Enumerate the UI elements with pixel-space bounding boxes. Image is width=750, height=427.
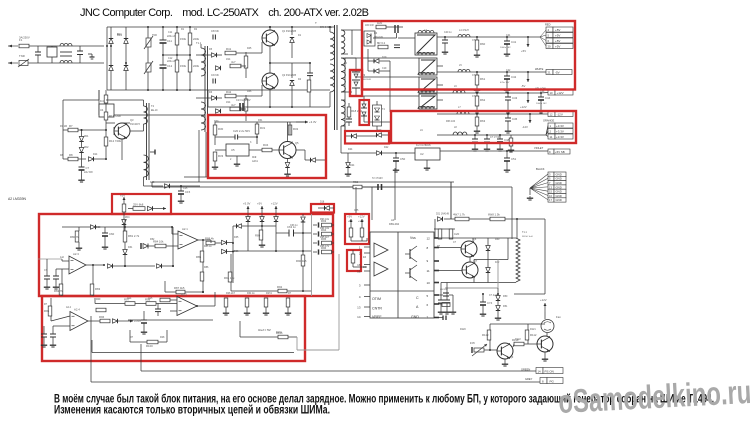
wire gray input (38, 258, 62, 260)
svg-text:+12V: +12V (557, 91, 564, 95)
svg-text:C7: C7 (86, 166, 90, 170)
ground (508, 148, 514, 152)
svg-text:RED: RED (545, 23, 551, 27)
wire (347, 168, 349, 172)
capacitor CX1 (35, 52, 41, 55)
wire (189, 27, 191, 33)
svg-text:C11: C11 (168, 31, 173, 34)
wire (309, 63, 311, 73)
wire (236, 156, 238, 162)
resistor F1 fuse (19, 38, 29, 48)
svg-text:GND: GND (411, 315, 419, 319)
wire (124, 242, 126, 249)
wire (165, 291, 176, 293)
winding T1.1 upper winding (201, 48, 206, 76)
wire (340, 126, 342, 153)
ground (50, 343, 56, 347)
svg-text:+3.3V: +3.3V (309, 120, 317, 124)
ground (102, 245, 108, 249)
svg-text:C42: C42 (506, 69, 511, 72)
wire (313, 224, 317, 226)
junction (275, 250, 277, 252)
wire (540, 37, 546, 46)
wire +3.3V rail (437, 134, 546, 136)
ground (178, 199, 184, 203)
svg-text:C?: C? (453, 241, 457, 244)
wire (104, 236, 106, 245)
wire (304, 150, 306, 160)
svg-text:C43: C43 (512, 96, 518, 100)
highlight box D12 (360, 100, 370, 125)
resistor R97 (124, 298, 135, 306)
wire (50, 316, 52, 321)
choke core (60, 55, 72, 57)
wire (355, 58, 357, 72)
wire (78, 242, 80, 246)
wire (332, 233, 335, 235)
wire (303, 232, 312, 234)
svg-text:R120: R120 (460, 328, 466, 331)
capacitor C75 (443, 316, 446, 321)
svg-text:1N4: 1N4 (226, 58, 231, 61)
wire (376, 126, 378, 130)
svg-text:L6: L6 (454, 85, 457, 88)
wire (240, 108, 246, 110)
svg-text:D14: D14 (93, 153, 98, 156)
diode D6 (212, 96, 217, 101)
svg-text:+12V: +12V (520, 105, 527, 109)
wire (50, 298, 52, 306)
svg-text:1R0 1W: 1R0 1W (365, 24, 374, 27)
wire (62, 260, 69, 262)
capacitor C65 (318, 231, 320, 236)
wire pin stub left (364, 284, 370, 286)
wire (215, 242, 221, 244)
wire (147, 72, 149, 90)
diode D32 (108, 264, 113, 269)
wire (357, 135, 376, 137)
svg-text:C42: C42 (511, 75, 517, 79)
wire (86, 264, 104, 266)
svg-text:OTIM: OTIM (372, 297, 381, 301)
junction (476, 92, 478, 94)
diode D31 (123, 250, 128, 255)
wire (270, 62, 292, 64)
diode D7 (216, 66, 221, 71)
choke winding L3 winding -5V (419, 58, 437, 75)
junction (189, 89, 191, 91)
wire Q7 emitter (473, 278, 475, 283)
wire (78, 227, 80, 231)
inductor L common-mode choke b (60, 60, 72, 63)
svg-text:C20: C20 (454, 232, 460, 236)
resistor R102 (96, 308, 106, 312)
svg-text:10: 10 (427, 281, 431, 285)
svg-text:R31: R31 (260, 126, 266, 130)
wire (363, 116, 365, 122)
svg-text:12: 12 (550, 112, 554, 116)
wire (507, 121, 509, 129)
svg-text:3: 3 (359, 284, 361, 288)
svg-text:PS ON: PS ON (545, 369, 554, 373)
wire (363, 96, 365, 104)
capacitor C61 (44, 276, 50, 279)
wire (382, 186, 396, 188)
wire (540, 30, 546, 37)
wire (55, 279, 57, 285)
svg-text:R90 1k5: R90 1k5 (296, 259, 307, 263)
wire (256, 134, 258, 144)
wire (90, 361, 92, 382)
svg-text:D31: D31 (128, 246, 133, 249)
wire (309, 75, 311, 80)
diode ZD1 (79, 137, 84, 142)
wire (487, 260, 489, 268)
svg-text:R30: R30 (218, 127, 224, 131)
svg-text:D24: D24 (348, 148, 353, 151)
diode D40 (113, 319, 118, 324)
ground (472, 147, 478, 151)
junction (172, 265, 174, 267)
wire pin stub left (364, 296, 370, 298)
wire (238, 136, 257, 138)
junction (302, 290, 304, 292)
resistor R95 (44, 306, 52, 316)
resistor R100 (146, 340, 158, 348)
wire (147, 27, 149, 38)
diode D35 (222, 240, 227, 245)
wire primary mid bus (107, 89, 330, 91)
resistor R115 (438, 229, 442, 239)
wire tap2 (341, 53, 348, 55)
wire (476, 50, 478, 53)
wire (344, 126, 346, 136)
wire (94, 298, 96, 304)
resistor R91 (224, 272, 235, 282)
capacitor C44 (538, 96, 551, 100)
wire (245, 95, 247, 99)
transistor Q7 (462, 262, 478, 278)
transistor Q6 (461, 241, 477, 257)
winding T primary winding lower (330, 64, 335, 92)
wire (215, 136, 235, 138)
wire (294, 232, 304, 234)
diode D14 (89, 157, 94, 162)
wire (497, 288, 499, 294)
wire (289, 122, 291, 125)
wire (524, 343, 528, 345)
junction (92, 264, 94, 266)
wire (62, 325, 70, 327)
wire (302, 223, 304, 234)
resistor R96 (321, 246, 332, 254)
svg-text:A2.3: A2.3 (73, 252, 79, 256)
op-amp A2.2 (177, 293, 197, 316)
wire (157, 304, 159, 310)
arrow feed +5.0V (243, 202, 251, 214)
svg-text:IC3: IC3 (252, 155, 257, 159)
arrow -5V load (521, 75, 530, 88)
wire (313, 251, 317, 253)
svg-text:D30: D30 (96, 226, 101, 229)
ground (444, 310, 450, 314)
resistor R1 (175, 33, 186, 45)
wire (440, 303, 442, 310)
svg-text:C51: C51 (511, 157, 517, 161)
wire (130, 130, 144, 132)
ground (393, 168, 399, 172)
svg-text:Q7: Q7 (474, 260, 478, 263)
svg-text:+12V: +12V (358, 215, 365, 219)
resistor R51 (377, 41, 388, 49)
wire (506, 161, 508, 168)
svg-text:25V 6k8: 25V 6k8 (133, 203, 144, 207)
junction (105, 158, 107, 160)
junction (476, 113, 478, 115)
wire (151, 182, 153, 187)
svg-text:R83: R83 (95, 287, 101, 291)
junction (180, 185, 182, 187)
arrow +12V load (520, 96, 530, 109)
wire tap5 (341, 99, 345, 101)
ground chassis (88, 54, 95, 59)
junction (147, 26, 149, 28)
highlight box -12V/+3.3V rails (391, 111, 576, 143)
svg-text:Q1 KSC2335: Q1 KSC2335 (282, 30, 297, 33)
wire (205, 132, 207, 177)
wire (157, 312, 159, 316)
T core line a (334, 25, 336, 130)
inductor L3 bumps e (418, 106, 434, 109)
thermistor NTC1 (144, 36, 153, 49)
svg-text:U5: U5 (231, 148, 235, 152)
wire (162, 43, 164, 65)
svg-text:R28: R28 (160, 336, 165, 339)
wire (482, 305, 484, 312)
wire (540, 37, 546, 41)
junction (172, 265, 174, 267)
wire (95, 303, 125, 305)
wire (162, 265, 173, 267)
capacitor C11 (160, 39, 173, 43)
connector table RED +5V (546, 27, 573, 49)
ground (504, 168, 510, 172)
resistor R47 (307, 80, 311, 92)
wire bottom rail (474, 282, 516, 284)
wire (78, 158, 86, 160)
wire bridge right leg (125, 27, 127, 90)
wire (148, 245, 155, 247)
diode ZD4 (122, 220, 127, 225)
capacitor C65 (41, 334, 47, 337)
wire aux rail in box (92, 352, 294, 354)
wire (504, 359, 506, 362)
ground (474, 129, 480, 133)
resistor R93 (321, 219, 332, 227)
svg-text:ZD4: ZD4 (125, 216, 130, 219)
svg-text:ORANGE: ORANGE (543, 119, 555, 123)
junction (269, 106, 271, 108)
wire (540, 100, 542, 109)
dual diode D9 (352, 72, 360, 88)
resistor R72 (351, 254, 355, 263)
wire (214, 135, 216, 145)
svg-text:ZD2: ZD2 (84, 146, 89, 149)
wire (345, 135, 351, 137)
svg-text:5R:50 1uH: 5R:50 1uH (522, 236, 533, 238)
wire (309, 92, 311, 107)
wire stub (437, 65, 443, 67)
wire (316, 159, 325, 161)
junction (232, 251, 234, 253)
wire (52, 326, 54, 334)
svg-text:C25: C25 (354, 209, 359, 212)
ground (259, 243, 265, 247)
junction (176, 89, 178, 91)
wire (239, 321, 241, 337)
svg-text:C40 1n: C40 1n (444, 31, 452, 34)
fan M1 (541, 315, 561, 333)
resistor R52 (353, 180, 362, 189)
svg-text:R62: R62 (480, 98, 486, 102)
resistor R92 (277, 285, 287, 293)
wire (497, 301, 499, 305)
svg-text:R88 4k: R88 4k (205, 237, 214, 241)
wire (352, 29, 362, 31)
svg-text:R52: R52 (353, 180, 359, 184)
wire (527, 324, 529, 330)
choke core (60, 51, 72, 53)
svg-text:D40: D40 (495, 238, 500, 241)
arrow feed +5V (257, 202, 264, 214)
wire Q2 emitter (269, 89, 271, 107)
svg-text:R8: R8 (69, 153, 73, 157)
capacitor C43 (505, 96, 518, 100)
svg-text:4x7: 4x7 (231, 60, 236, 64)
pin stub (434, 282, 439, 284)
resistor R64 (509, 138, 513, 146)
wire T1.1 to bus (198, 130, 200, 182)
svg-text:R95: R95 (44, 309, 50, 313)
capacitor CX2 box (47, 47, 57, 57)
capacitor C41 (504, 40, 517, 44)
svg-text:Q3: Q3 (130, 118, 134, 122)
svg-text:22u 50V: 22u 50V (84, 171, 93, 174)
transistor Q8 (537, 336, 553, 352)
svg-text:+OUT: +OUT (134, 319, 142, 323)
wire (176, 72, 178, 90)
junction (176, 26, 178, 28)
svg-text:D35: D35 (234, 236, 239, 239)
resistor R98 (145, 298, 156, 306)
svg-text:+5V: +5V (555, 44, 560, 48)
junction (106, 45, 108, 47)
ground (495, 316, 501, 320)
wire (446, 283, 448, 301)
resistor R41 (225, 47, 236, 55)
svg-text:R80 7k: R80 7k (70, 235, 79, 239)
wire primary lower bus (99, 114, 205, 116)
wire (356, 95, 364, 97)
wire (81, 170, 83, 178)
wire 5VSB tap (341, 152, 376, 154)
wire (214, 122, 216, 125)
svg-text:D4: D4 (374, 32, 378, 35)
pin stub (434, 317, 439, 319)
svg-text:R?: R? (44, 303, 48, 306)
wire (362, 186, 378, 188)
arrow -12V load (522, 117, 532, 129)
wire to primary (243, 106, 326, 108)
wire (513, 344, 514, 347)
wire (51, 57, 53, 63)
wire T1 tap riser (507, 238, 509, 260)
svg-text:C74: C74 (487, 301, 493, 305)
svg-text:R85 1k: R85 1k (204, 245, 212, 248)
wire (506, 151, 508, 158)
svg-text:R91 10k: R91 10k (224, 276, 235, 280)
wire (348, 103, 350, 107)
svg-text:R26 2k7: R26 2k7 (226, 292, 236, 295)
IC3 body (226, 144, 249, 156)
resistor R84 (153, 240, 166, 248)
junction (489, 349, 491, 351)
junction (124, 265, 126, 267)
resistor Rg247 (245, 298, 249, 307)
wire (46, 279, 48, 285)
wire (516, 219, 518, 238)
wire (51, 46, 53, 47)
svg-text:+5V: +5V (257, 202, 262, 206)
svg-text:R63: R63 (480, 119, 486, 123)
IC4 startup box (99, 104, 114, 117)
wire (507, 93, 509, 97)
wire (225, 307, 227, 311)
svg-text:C48: C48 (504, 138, 510, 142)
svg-text:D5: D5 (209, 48, 213, 51)
wire (302, 214, 304, 216)
wire (528, 343, 537, 345)
resistor R85 (196, 251, 204, 262)
junction (81, 129, 83, 131)
wire +310V top bus (107, 26, 334, 28)
wire (510, 135, 512, 138)
wire (106, 99, 130, 101)
wire left rail (62, 100, 64, 159)
dual diode D12 (361, 104, 367, 116)
svg-text:U2: U2 (420, 152, 424, 156)
svg-text:+5V: +5V (555, 33, 560, 37)
wire (247, 226, 249, 233)
capacitor C18 (346, 119, 352, 122)
junction (527, 71, 529, 73)
svg-text:-5V: -5V (555, 70, 560, 74)
diode D42 (486, 268, 491, 273)
junction (269, 26, 271, 28)
wire (261, 42, 263, 53)
wire (540, 93, 542, 97)
wire (398, 37, 415, 39)
wire (546, 131, 548, 135)
wire base drive 2 (236, 95, 262, 97)
svg-text:+12V: +12V (271, 202, 278, 206)
wire 5VSB in (382, 152, 415, 154)
wire (452, 295, 454, 310)
junction (516, 218, 518, 220)
resistor R42 (225, 90, 236, 98)
wire (113, 265, 125, 267)
wire (367, 49, 369, 71)
